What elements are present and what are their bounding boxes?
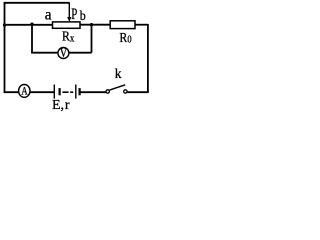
wire switch to bottom right corner (127, 91, 148, 93)
svg-text:R0: R0 (119, 31, 131, 46)
junction node at voltmeter right branch (90, 23, 93, 26)
wire voltmeter right lead (69, 52, 92, 54)
voltmeter circle (58, 48, 69, 59)
svg-text:k: k (115, 66, 122, 81)
rheostat arrowhead (wiper P) (67, 17, 71, 22)
battery cell 2 long plate (75, 85, 77, 99)
switch k left contact circle (106, 90, 109, 93)
rheostat wiper arrow shaft from top wire (68, 3, 70, 18)
rheostat Rx body box (53, 22, 81, 28)
ammeter circle (19, 85, 31, 98)
resistor R0 body box (110, 21, 135, 29)
svg-text:E,r: E,r (52, 98, 70, 112)
battery dash 1 (62, 91, 68, 93)
wire top horizontal (4, 2, 70, 4)
svg-text:P: P (71, 6, 77, 23)
svg-text:V: V (60, 45, 68, 60)
svg-text:b: b (80, 9, 86, 24)
svg-text:Rx: Rx (62, 30, 75, 45)
wire voltmeter branch right vertical (91, 25, 93, 53)
battery cell 2 short plate (78, 88, 80, 95)
wire battery to switch (80, 91, 106, 93)
wire ammeter to battery (31, 91, 55, 93)
wire mid-left horizontal to rheostat (5, 24, 53, 26)
switch k right contact circle (124, 90, 127, 93)
battery cell 1 long plate (53, 85, 55, 99)
svg-text:a: a (45, 7, 52, 24)
wire rheostat right lead (80, 24, 110, 26)
wire voltmeter branch left (down then right) (32, 25, 58, 53)
wire left outer vertical (4, 2, 6, 92)
junction node at voltmeter left branch (30, 23, 33, 26)
switch blade (110, 85, 126, 90)
wire right outer vertical (147, 24, 149, 92)
battery cell 1 short plate (58, 88, 60, 95)
battery dash 2 (70, 91, 73, 93)
wire bottom left segment to ammeter (5, 91, 19, 94)
junction node at left wire / mid wire (3, 23, 6, 26)
svg-text:A: A (21, 84, 28, 98)
wire R0 right lead (135, 24, 148, 26)
